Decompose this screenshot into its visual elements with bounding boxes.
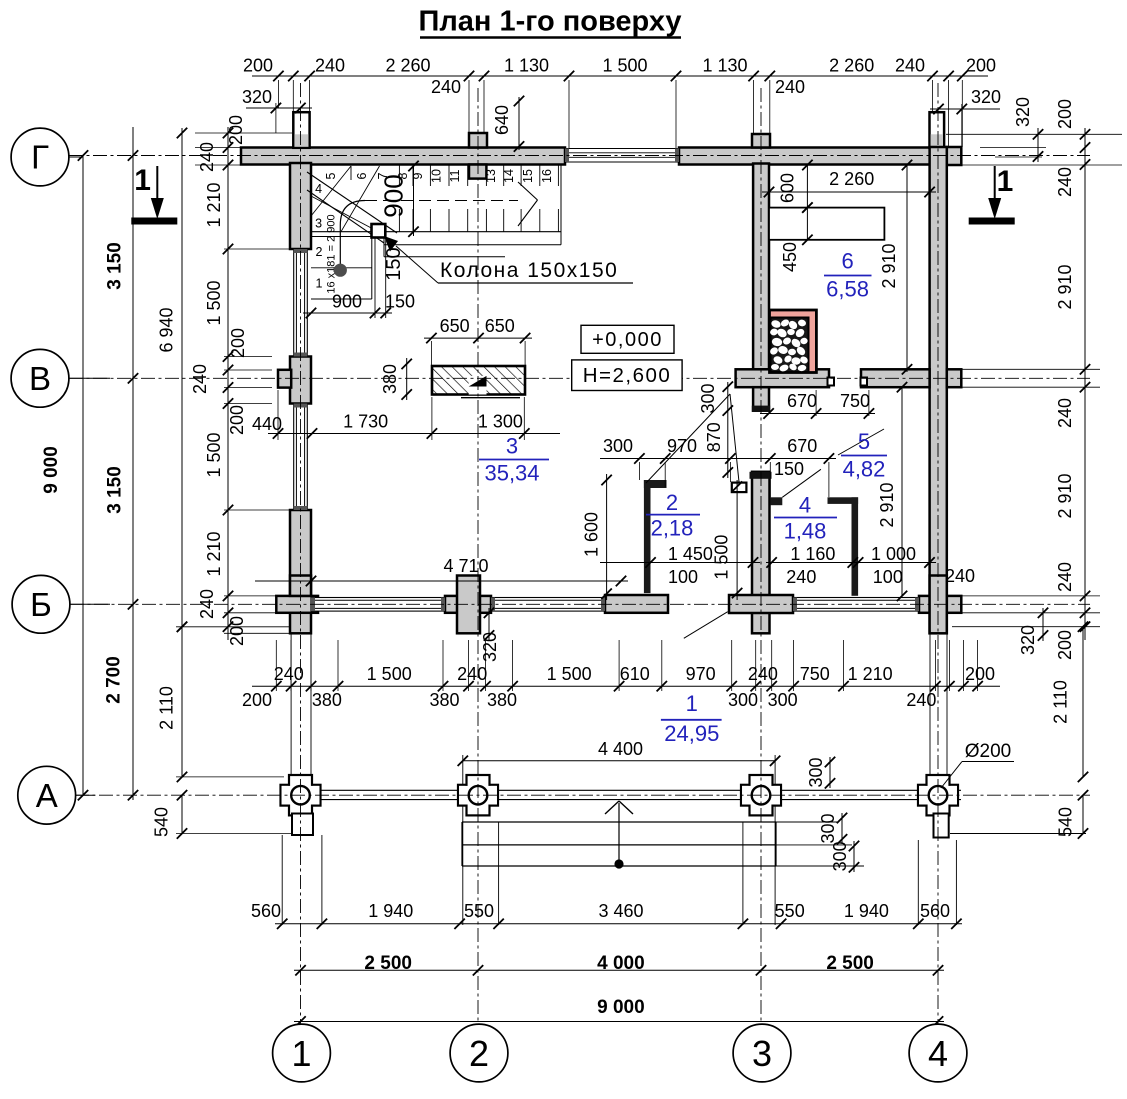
svg-text:640: 640 [492,105,512,135]
svg-text:35,34: 35,34 [484,461,539,486]
svg-text:6: 6 [841,249,853,274]
svg-text:240: 240 [1055,167,1075,197]
svg-text:550: 550 [775,901,805,921]
svg-text:240: 240 [274,664,304,684]
svg-text:1 210: 1 210 [204,182,224,227]
svg-text:3: 3 [752,1033,772,1074]
svg-text:670: 670 [787,436,817,456]
svg-text:А: А [36,777,58,814]
svg-text:1 500: 1 500 [602,56,647,76]
svg-text:320: 320 [480,632,500,662]
svg-text:1 450: 1 450 [668,544,713,564]
svg-text:10: 10 [429,169,443,183]
svg-text:240: 240 [197,142,217,172]
svg-text:1 940: 1 940 [368,901,413,921]
svg-text:Колона 150х150: Колона 150х150 [440,259,618,282]
svg-text:750: 750 [800,664,830,684]
svg-text:16 х181 = 2 900: 16 х181 = 2 900 [326,214,338,293]
svg-text:380: 380 [380,364,400,394]
svg-text:9 000: 9 000 [41,446,62,494]
svg-text:5: 5 [858,429,870,454]
svg-text:240: 240 [906,690,936,710]
svg-text:4 710: 4 710 [443,556,488,576]
svg-text:870: 870 [704,422,724,452]
svg-text:1: 1 [997,165,1014,198]
svg-text:4 000: 4 000 [597,953,645,974]
svg-text:100: 100 [873,567,903,587]
svg-text:1 210: 1 210 [204,531,224,576]
svg-text:2: 2 [666,490,678,515]
svg-text:2 260: 2 260 [829,56,874,76]
svg-text:1 300: 1 300 [478,412,523,432]
svg-text:2 910: 2 910 [879,243,899,288]
svg-text:6,58: 6,58 [826,277,869,302]
svg-text:2 910: 2 910 [877,482,897,527]
svg-text:11: 11 [448,169,462,182]
svg-text:320: 320 [1018,625,1038,655]
svg-text:+0,000: +0,000 [592,329,663,351]
svg-text:540: 540 [152,807,172,837]
svg-text:Б: Б [30,586,52,623]
svg-text:1 730: 1 730 [343,412,388,432]
svg-text:200: 200 [966,56,996,76]
svg-text:240: 240 [197,589,217,619]
svg-text:240: 240 [775,77,805,97]
svg-text:Н=2,600: Н=2,600 [583,364,672,387]
svg-text:240: 240 [945,566,975,586]
svg-text:2 910: 2 910 [1055,264,1075,309]
svg-text:4: 4 [799,493,811,518]
svg-text:Г: Г [31,139,49,176]
svg-text:2,18: 2,18 [651,516,694,541]
svg-text:Ø200: Ø200 [965,741,1011,762]
svg-text:300: 300 [698,383,718,413]
svg-text:200: 200 [227,616,247,646]
svg-text:150: 150 [774,459,804,479]
svg-text:650: 650 [440,316,470,336]
svg-text:1: 1 [291,1033,311,1074]
svg-text:2 260: 2 260 [829,169,874,189]
svg-text:380: 380 [487,690,517,710]
svg-text:2 110: 2 110 [1051,680,1071,724]
svg-text:240: 240 [1055,562,1075,592]
svg-text:560: 560 [920,901,950,921]
svg-text:240: 240 [315,56,345,76]
svg-text:3 460: 3 460 [598,901,643,921]
svg-text:1 500: 1 500 [712,535,732,580]
svg-text:1 500: 1 500 [547,664,592,684]
svg-text:540: 540 [1056,807,1076,837]
svg-text:200: 200 [1055,630,1075,660]
svg-text:200: 200 [242,690,272,710]
svg-text:1 600: 1 600 [581,512,601,557]
svg-text:650: 650 [485,316,515,336]
svg-text:1 160: 1 160 [790,544,835,564]
svg-text:550: 550 [464,901,494,921]
svg-text:9: 9 [411,172,425,179]
svg-text:320: 320 [971,87,1001,107]
svg-text:900: 900 [332,292,362,312]
svg-text:200: 200 [226,115,246,145]
svg-text:670: 670 [787,391,817,411]
svg-text:300: 300 [728,690,758,710]
svg-text:1: 1 [686,691,698,716]
svg-text:440: 440 [252,414,282,434]
svg-text:560: 560 [251,901,281,921]
svg-text:200: 200 [1055,99,1075,129]
svg-text:380: 380 [429,690,459,710]
svg-text:1 500: 1 500 [204,432,224,477]
svg-text:14: 14 [502,169,516,183]
svg-text:2 910: 2 910 [1055,473,1075,518]
svg-text:900: 900 [379,174,409,217]
svg-text:16: 16 [540,169,554,183]
svg-text:750: 750 [840,391,870,411]
svg-text:3 150: 3 150 [105,242,126,290]
svg-text:320: 320 [1013,97,1033,127]
svg-text:24,95: 24,95 [664,721,719,746]
svg-text:200: 200 [243,56,273,76]
svg-text:970: 970 [686,664,716,684]
svg-text:3: 3 [506,434,518,459]
svg-text:2: 2 [469,1033,489,1074]
svg-text:2: 2 [316,245,323,259]
svg-text:4: 4 [315,182,322,196]
svg-text:1 210: 1 210 [848,664,893,684]
svg-text:240: 240 [431,77,461,97]
svg-text:4: 4 [928,1033,948,1074]
svg-text:15: 15 [521,169,535,183]
svg-text:План 1-го поверху: План 1-го поверху [419,6,682,38]
svg-text:300: 300 [603,436,633,456]
svg-text:2 500: 2 500 [364,953,412,974]
svg-text:3: 3 [315,216,322,230]
svg-text:200: 200 [965,664,995,684]
svg-text:9 000: 9 000 [597,997,645,1018]
svg-text:13: 13 [484,169,498,183]
svg-text:1 000: 1 000 [871,544,916,564]
svg-text:3 150: 3 150 [105,466,126,514]
svg-text:240: 240 [1055,398,1075,428]
svg-text:1 130: 1 130 [504,56,549,76]
svg-text:450: 450 [780,242,800,272]
svg-text:150: 150 [385,292,415,312]
svg-text:1 500: 1 500 [367,664,412,684]
svg-text:1 940: 1 940 [844,901,889,921]
svg-text:1 500: 1 500 [204,280,224,325]
svg-text:240: 240 [895,56,925,76]
svg-text:240: 240 [190,364,210,394]
svg-text:2 260: 2 260 [385,56,430,76]
svg-text:300: 300 [806,757,826,787]
svg-text:300: 300 [818,813,838,843]
svg-text:2 110: 2 110 [157,686,177,730]
svg-text:320: 320 [242,87,272,107]
svg-text:1: 1 [134,164,151,197]
svg-text:380: 380 [312,690,342,710]
svg-text:1,48: 1,48 [784,519,827,544]
svg-text:5: 5 [324,172,338,179]
svg-text:300: 300 [830,841,850,871]
svg-text:2 700: 2 700 [104,656,125,704]
svg-text:610: 610 [620,664,650,684]
svg-text:100: 100 [668,567,698,587]
svg-text:970: 970 [667,436,697,456]
svg-text:6 940: 6 940 [157,307,177,352]
svg-text:240: 240 [786,567,816,587]
svg-text:2 500: 2 500 [826,953,874,974]
svg-text:600: 600 [778,173,798,203]
svg-text:240: 240 [457,664,487,684]
svg-text:1 130: 1 130 [702,56,747,76]
svg-text:В: В [29,360,51,397]
svg-text:150: 150 [383,247,405,280]
svg-text:4 400: 4 400 [598,739,643,759]
svg-text:240: 240 [748,664,778,684]
svg-text:1: 1 [316,277,323,291]
svg-text:4,82: 4,82 [843,457,886,482]
svg-text:300: 300 [768,690,798,710]
svg-text:6: 6 [355,172,369,179]
svg-text:200: 200 [227,405,247,435]
svg-text:200: 200 [228,328,248,358]
